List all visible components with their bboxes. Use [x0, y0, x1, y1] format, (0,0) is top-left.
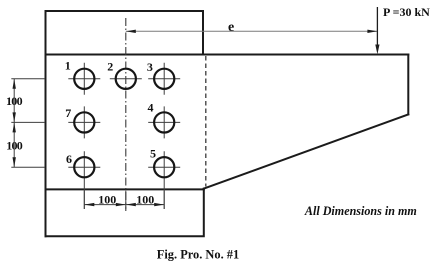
hole 1 crosshair [68, 63, 100, 95]
hole crosshairs [68, 63, 180, 209]
left dimension arrows [13, 79, 16, 167]
svg-text:6: 6 [66, 152, 72, 166]
hole 6 [74, 157, 94, 177]
top flange rectangle [46, 11, 204, 55]
bottom flange rectangle [46, 189, 204, 237]
load arrow P [376, 7, 378, 46]
arrow down at row2 [13, 112, 16, 122]
hole 7 crosshair [68, 106, 100, 138]
hole number labels [65, 58, 156, 165]
left vertical edge of plate [45, 11, 47, 236]
bottom dimension arrows [84, 203, 164, 206]
hole 3 crosshair [148, 63, 180, 95]
arrow left at centerline [126, 203, 136, 206]
load arrowhead [375, 45, 379, 55]
tapered bottom edge (slant) [204, 114, 408, 188]
svg-text:7: 7 [65, 106, 71, 120]
tick col 3 [163, 191, 165, 209]
svg-text:Fig. Pro. No. #1: Fig. Pro. No. #1 [157, 247, 239, 261]
svg-text:P =30 kN: P =30 kN [383, 5, 430, 19]
arrow up at row1 [13, 79, 16, 89]
tick row 2 [11, 121, 45, 123]
svg-text:All Dimensions in mm: All Dimensions in mm [304, 204, 417, 218]
bracket outline [46, 11, 409, 236]
arrow left at col1 [84, 203, 94, 206]
svg-text:4: 4 [148, 100, 154, 114]
top edge of bracket plate [46, 54, 409, 56]
svg-text:3: 3 [147, 60, 153, 74]
tick col 1 [83, 191, 85, 209]
bottom dimension extension ticks [84, 191, 164, 209]
hole 7 [74, 112, 94, 132]
main vertical centerline (dash-dot) [125, 18, 127, 211]
arrow right at load line [367, 30, 377, 33]
tick row 1 [11, 78, 45, 80]
hidden edge (dashed) [205, 56, 207, 187]
tick centerline [125, 191, 127, 209]
hole 4 [154, 112, 174, 132]
arrow down at row3 [13, 157, 16, 167]
bottom flange separation line [46, 188, 204, 190]
svg-text:2: 2 [107, 60, 113, 74]
hole circles [74, 69, 174, 178]
svg-text:e: e [228, 20, 234, 35]
left vertical dimension line [13, 79, 15, 167]
hole 5 [154, 157, 174, 177]
e dim arrows [126, 30, 378, 33]
hole 6 crosshair + extension to bottom dimension [68, 151, 100, 209]
arrow up at row2 [13, 122, 16, 132]
tick row 3 [11, 166, 45, 168]
hole 1 [74, 69, 94, 89]
arrow left at centerline [126, 30, 136, 33]
svg-text:5: 5 [150, 146, 156, 160]
hole 4 crosshair [148, 106, 180, 138]
hole 5 crosshair + extension to bottom dimension [148, 151, 180, 209]
hole 3 [154, 69, 174, 89]
right vertical edge [407, 55, 409, 115]
arrow right at centerline [116, 203, 126, 206]
arrow right at col3 [154, 203, 164, 206]
hole 2 [116, 69, 136, 89]
bottom dimension line [84, 204, 164, 206]
eccentricity dimension line e [126, 30, 378, 32]
svg-text:1: 1 [65, 58, 71, 72]
hole 2 crosshair [110, 78, 142, 80]
left dimension extension ticks [11, 79, 45, 167]
